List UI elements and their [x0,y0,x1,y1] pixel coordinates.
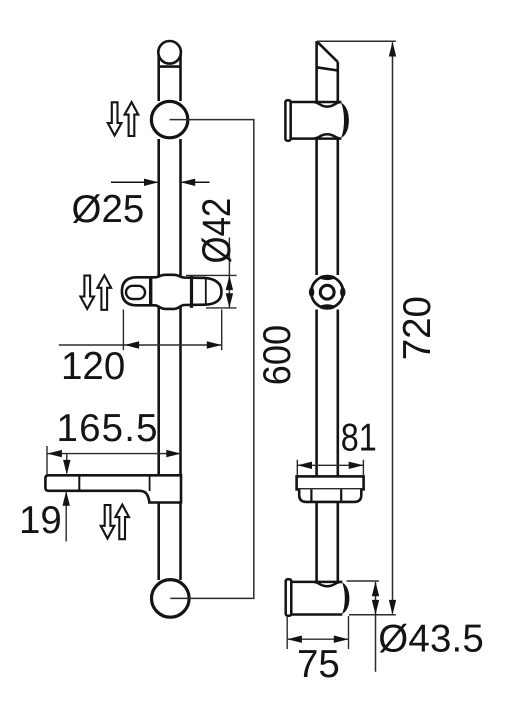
svg-text:600: 600 [255,325,298,385]
svg-text:Ø25: Ø25 [72,188,145,231]
svg-text:Ø42: Ø42 [194,198,239,264]
svg-text:120: 120 [61,345,125,388]
svg-text:81: 81 [341,416,377,459]
svg-text:75: 75 [297,643,340,686]
svg-text:720: 720 [396,296,439,360]
svg-text:19: 19 [19,499,62,542]
svg-text:165.5: 165.5 [57,407,158,450]
svg-text:Ø43.5: Ø43.5 [378,617,484,660]
